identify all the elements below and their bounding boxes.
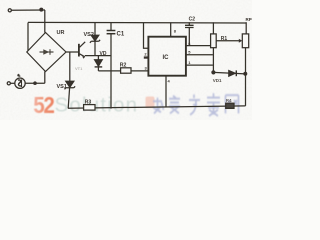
svg-text:VT1: VT1 xyxy=(75,66,83,71)
svg-text:52: 52 xyxy=(33,92,54,119)
svg-text:C2: C2 xyxy=(189,17,196,23)
svg-text:IC: IC xyxy=(163,55,170,61)
svg-text:VS1: VS1 xyxy=(57,84,67,90)
svg-text:R4: R4 xyxy=(226,98,232,103)
svg-text:RP: RP xyxy=(246,17,252,22)
svg-text:VD1: VD1 xyxy=(213,78,222,83)
svg-text:R2: R2 xyxy=(120,62,127,68)
svg-text:C1: C1 xyxy=(117,31,125,37)
svg-text:VD: VD xyxy=(100,51,107,57)
svg-text:R1: R1 xyxy=(221,36,228,42)
svg-text:VS2: VS2 xyxy=(84,32,94,38)
svg-text:Solution: Solution xyxy=(55,94,139,117)
svg-text:UR: UR xyxy=(57,30,65,36)
svg-text:R3: R3 xyxy=(85,99,92,105)
